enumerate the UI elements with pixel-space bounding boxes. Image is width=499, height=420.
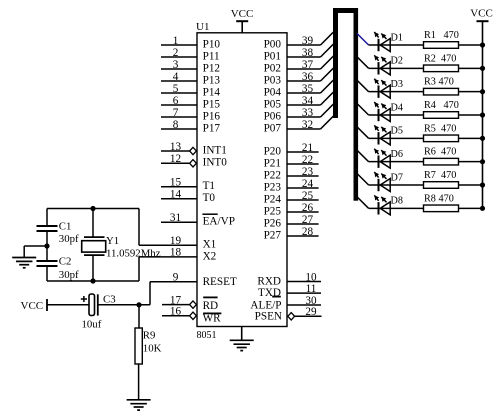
svg-text:8051: 8051 <box>197 330 217 341</box>
svg-text:7: 7 <box>173 107 179 119</box>
svg-text:470: 470 <box>444 30 459 41</box>
svg-text:P07: P07 <box>264 122 282 134</box>
svg-text:P04: P04 <box>264 86 282 98</box>
svg-text:5: 5 <box>173 83 179 95</box>
svg-text:470: 470 <box>441 147 456 158</box>
svg-text:9: 9 <box>173 272 179 284</box>
svg-text:15: 15 <box>170 177 182 189</box>
svg-text:34: 34 <box>302 95 314 107</box>
svg-text:INT0: INT0 <box>203 157 228 169</box>
svg-text:14: 14 <box>170 189 182 201</box>
svg-text:10K: 10K <box>143 343 162 355</box>
svg-text:2: 2 <box>173 47 179 59</box>
svg-text:RESET: RESET <box>203 276 237 288</box>
svg-text:P23: P23 <box>264 181 282 193</box>
svg-text:INT1: INT1 <box>203 144 227 156</box>
svg-text:X2: X2 <box>203 250 217 262</box>
svg-text:30pf: 30pf <box>59 269 79 281</box>
svg-text:VCC: VCC <box>21 300 44 312</box>
svg-text:U1: U1 <box>196 21 209 33</box>
svg-text:PSEN: PSEN <box>255 310 282 322</box>
svg-text:18: 18 <box>170 247 182 259</box>
svg-text:C2: C2 <box>59 255 72 267</box>
svg-text:P05: P05 <box>264 98 282 110</box>
svg-text:R7: R7 <box>424 170 436 181</box>
svg-text:21: 21 <box>302 142 313 154</box>
svg-text:31: 31 <box>170 212 181 224</box>
svg-text:17: 17 <box>170 294 182 306</box>
svg-text:R3: R3 <box>424 77 436 88</box>
svg-text:13: 13 <box>170 141 182 153</box>
svg-text:28: 28 <box>302 226 314 238</box>
svg-text:R4: R4 <box>424 100 436 111</box>
svg-text:30pf: 30pf <box>59 233 79 245</box>
svg-text:R1: R1 <box>424 30 436 41</box>
svg-text:P13: P13 <box>203 74 221 86</box>
svg-text:470: 470 <box>439 77 454 88</box>
svg-text:R6: R6 <box>424 147 436 158</box>
svg-text:P21: P21 <box>264 157 281 169</box>
svg-text:P00: P00 <box>264 38 282 50</box>
svg-text:470: 470 <box>441 170 456 181</box>
svg-text:11: 11 <box>306 283 317 295</box>
svg-text:D3: D3 <box>391 79 403 90</box>
svg-text:D5: D5 <box>391 126 403 137</box>
svg-text:470: 470 <box>441 123 456 134</box>
svg-text:P17: P17 <box>203 122 221 134</box>
svg-text:470: 470 <box>441 53 456 64</box>
svg-text:R2: R2 <box>424 53 436 64</box>
svg-text:470: 470 <box>439 193 454 204</box>
svg-text:D7: D7 <box>391 172 403 183</box>
svg-text:10uf: 10uf <box>82 319 102 331</box>
svg-text:C1: C1 <box>59 220 72 232</box>
svg-text:R9: R9 <box>143 330 156 342</box>
svg-text:C3: C3 <box>103 294 116 306</box>
svg-text:VCC: VCC <box>231 8 254 20</box>
svg-text:1: 1 <box>173 35 179 47</box>
svg-text:32: 32 <box>302 119 313 131</box>
svg-text:24: 24 <box>302 178 314 190</box>
svg-text:P14: P14 <box>203 86 221 98</box>
svg-text:8: 8 <box>173 119 179 131</box>
svg-text:D2: D2 <box>391 56 403 67</box>
svg-text:T0: T0 <box>203 192 216 204</box>
svg-text:R8: R8 <box>424 193 436 204</box>
svg-text:39: 39 <box>302 35 314 47</box>
svg-text:37: 37 <box>302 59 314 71</box>
svg-text:26: 26 <box>302 202 314 214</box>
svg-text:12: 12 <box>170 153 181 165</box>
svg-text:P03: P03 <box>264 74 282 86</box>
svg-text:D8: D8 <box>391 196 403 207</box>
svg-text:P27: P27 <box>264 229 282 241</box>
svg-text:P26: P26 <box>264 217 282 229</box>
svg-text:3: 3 <box>173 59 179 71</box>
svg-text:4: 4 <box>173 71 179 83</box>
svg-text:29: 29 <box>305 306 317 318</box>
svg-text:P01: P01 <box>264 50 281 62</box>
svg-text:22: 22 <box>302 154 313 166</box>
svg-text:35: 35 <box>302 83 314 95</box>
svg-text:D4: D4 <box>391 102 403 113</box>
svg-text:D6: D6 <box>391 149 403 160</box>
svg-text:T1: T1 <box>203 180 215 192</box>
svg-text:33: 33 <box>302 107 314 119</box>
svg-text:P12: P12 <box>203 62 220 74</box>
svg-text:11.0592Mhz: 11.0592Mhz <box>106 247 161 259</box>
svg-text:P11: P11 <box>203 50 220 62</box>
svg-text:R5: R5 <box>424 123 436 134</box>
svg-text:27: 27 <box>302 214 314 226</box>
svg-text:RD: RD <box>203 300 219 312</box>
svg-text:P25: P25 <box>264 205 282 217</box>
svg-text:23: 23 <box>302 166 314 178</box>
svg-text:470: 470 <box>444 100 459 111</box>
svg-text:19: 19 <box>170 235 182 247</box>
svg-text:Y1: Y1 <box>106 235 119 247</box>
svg-text:38: 38 <box>302 47 314 59</box>
svg-text:25: 25 <box>302 190 314 202</box>
svg-text:P06: P06 <box>264 110 282 122</box>
svg-text:36: 36 <box>302 71 314 83</box>
svg-text:6: 6 <box>173 95 179 107</box>
svg-text:EA/VP: EA/VP <box>203 216 235 228</box>
svg-text:10: 10 <box>305 271 317 283</box>
svg-text:RXD: RXD <box>257 275 281 287</box>
svg-text:X1: X1 <box>203 239 217 251</box>
svg-text:P20: P20 <box>264 145 282 157</box>
svg-text:P16: P16 <box>203 110 221 122</box>
svg-text:P24: P24 <box>264 193 282 205</box>
svg-text:P15: P15 <box>203 98 221 110</box>
svg-text:P22: P22 <box>264 169 281 181</box>
svg-text:16: 16 <box>170 306 182 318</box>
svg-text:P10: P10 <box>203 38 221 50</box>
svg-text:VCC: VCC <box>470 8 493 20</box>
svg-text:P02: P02 <box>264 62 281 74</box>
svg-text:D1: D1 <box>391 32 403 43</box>
